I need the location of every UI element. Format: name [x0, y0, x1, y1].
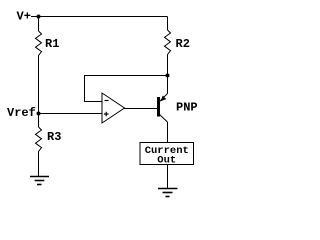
- node C : Vref junction: [37, 112, 41, 116]
- wire left rail upper: [38, 17, 40, 32]
- ground left: [30, 177, 49, 185]
- wire top rail V+: [31, 16, 168, 18]
- wire R3 to ground: [38, 152, 40, 177]
- wire box to ground: [167, 165, 169, 189]
- wire R2 to node: [167, 55, 169, 76]
- resistor R2: [165, 30, 171, 55]
- wire minus input: [84, 101, 102, 103]
- svg-text:Vref: Vref: [7, 106, 36, 120]
- resistor R1: [36, 31, 42, 56]
- ground right: [158, 189, 178, 197]
- wire left rail mid: [38, 56, 40, 114]
- svg-text:R2: R2: [176, 37, 190, 51]
- current out box: [140, 143, 194, 167]
- wire feedback vertical: [84, 76, 86, 103]
- wire feedback horizontal: [84, 75, 168, 77]
- wire left rail lower: [38, 113, 40, 127]
- svg-text:PNP: PNP: [176, 101, 198, 115]
- node B : feedback junction: [166, 74, 170, 78]
- wire node to emitter: [167, 76, 169, 94]
- svg-text:R3: R3: [47, 130, 61, 144]
- resistor R3: [36, 127, 42, 152]
- transistor Q1 PNP: [157, 94, 168, 123]
- svg-text:V+: V+: [17, 10, 31, 24]
- op-amp U1: [102, 93, 125, 123]
- wire collector down: [167, 122, 169, 143]
- node A : V+ junction: [37, 15, 41, 19]
- svg-text:R1: R1: [45, 37, 59, 51]
- svg-text:Out: Out: [157, 155, 176, 167]
- wire right rail upper: [167, 17, 169, 31]
- wire opamp output to base: [124, 108, 157, 110]
- wire Vref to plus input: [39, 113, 103, 115]
